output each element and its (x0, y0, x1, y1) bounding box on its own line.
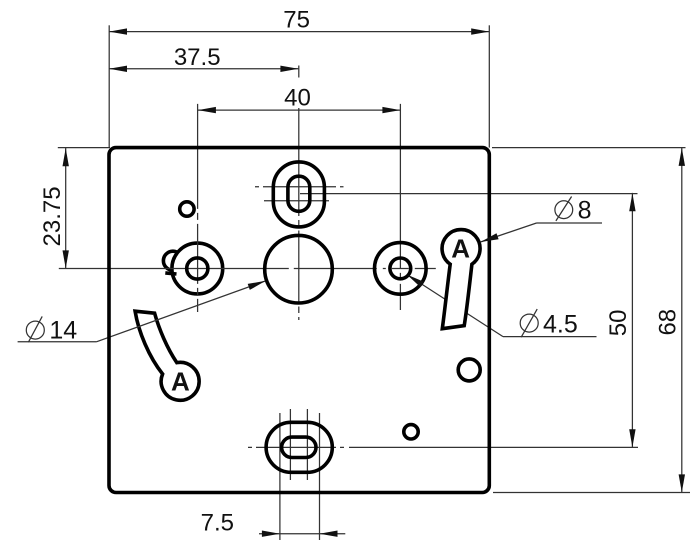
svg-text:7.5: 7.5 (201, 510, 234, 537)
svg-text:14: 14 (49, 316, 77, 344)
svg-text:37.5: 37.5 (174, 44, 221, 71)
svg-text:68: 68 (655, 309, 682, 336)
svg-text:40: 40 (284, 84, 311, 111)
svg-text:23.75: 23.75 (39, 186, 66, 246)
svg-text:A: A (451, 233, 470, 263)
svg-text:50: 50 (605, 310, 632, 337)
svg-text:4.5: 4.5 (543, 310, 578, 338)
svg-text:8: 8 (578, 196, 592, 224)
svg-text:A: A (171, 366, 190, 396)
svg-text:75: 75 (283, 6, 310, 33)
